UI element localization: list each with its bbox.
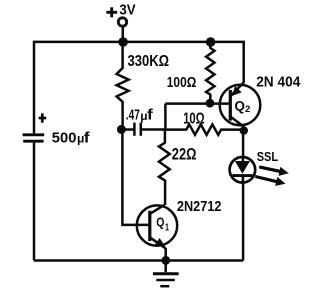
svg-text:3V: 3V — [119, 2, 135, 19]
node junction 330K / .47uf / base wire — [117, 125, 126, 134]
svg-text:330KΩ: 330KΩ — [128, 53, 170, 70]
wire left branch upper — [33, 41, 36, 134]
svg-text:SSL: SSL — [257, 149, 278, 164]
svg-text:100Ω: 100Ω — [167, 75, 197, 91]
wire terminal stem — [122, 26, 125, 42]
resistor R 100 ohm — [206, 42, 214, 104]
node junction 100 ohm / base wire — [206, 99, 215, 108]
wire left branch lower — [33, 143, 36, 261]
LED light arrow 1 — [259, 167, 289, 176]
label + polarity — [39, 113, 47, 122]
svg-text:2N 404: 2N 404 — [256, 75, 300, 91]
svg-text:2: 2 — [245, 104, 250, 115]
svg-text:1: 1 — [165, 221, 169, 233]
transistor Q2 2N404 (PNP) — [220, 82, 261, 130]
capacitor C 500uf — [23, 135, 45, 141]
wire node X vertical link — [164, 104, 167, 130]
svg-text:Q: Q — [156, 215, 164, 230]
svg-text:.47: .47 — [126, 107, 140, 124]
LED SSL — [230, 130, 256, 260]
wire Q2 base link — [165, 102, 230, 105]
svg-text:2N2712: 2N2712 — [177, 199, 222, 215]
wire top rail — [34, 42, 244, 83]
transistor Q1 2N2712 (NPN) — [137, 205, 177, 261]
LED light arrow 2 — [255, 177, 285, 186]
label Q1 — [156, 215, 169, 234]
capacitor C .47uf — [121, 123, 165, 136]
resistor R 10 ohm — [165, 124, 243, 134]
node junction Q1 emitter / ground / bottom rail — [161, 256, 170, 265]
label +3V — [106, 2, 135, 19]
label Q2 — [235, 99, 251, 115]
wire Q1 base branch — [122, 129, 149, 225]
node junction Q2 collector / 10 ohm / LED — [240, 126, 248, 134]
svg-text:10Ω: 10Ω — [183, 110, 205, 127]
power terminal +3V circle — [118, 18, 126, 26]
svg-text:Q: Q — [235, 99, 245, 114]
svg-text:22Ω: 22Ω — [172, 145, 197, 163]
node junction top rail / 100 ohm — [206, 37, 216, 47]
label .47uf — [126, 107, 154, 124]
svg-text:500: 500 — [52, 129, 77, 146]
resistor R 22 ohm — [159, 130, 170, 205]
wire bottom rail — [34, 259, 243, 262]
node junction top rail / 330K — [118, 37, 128, 47]
resistor R 330K — [117, 42, 129, 129]
label 500uf — [52, 129, 91, 146]
ground — [153, 260, 179, 286]
